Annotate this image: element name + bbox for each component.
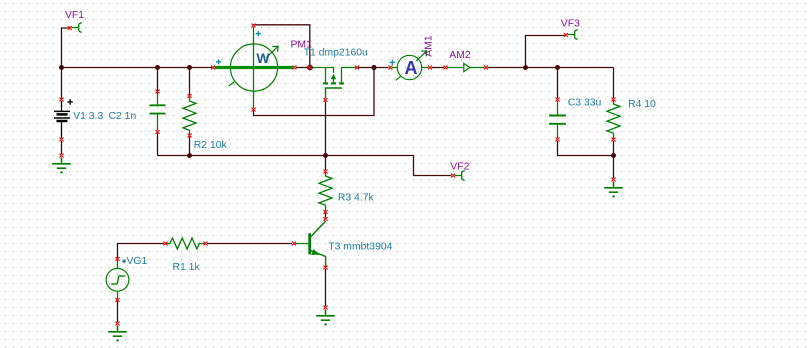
pin marks probe VF3 [564, 33, 567, 36]
wire top rail left [62, 67, 213, 69]
junction node: C3 top [555, 65, 560, 70]
resistor R3 [319, 172, 332, 212]
pin marks probe VF1 [68, 26, 71, 29]
label R2 10k [194, 140, 228, 151]
pin marks resistor R4 and its ground [612, 98, 615, 181]
label R1 1k [173, 262, 201, 273]
pin marks probe VF2 [452, 174, 455, 177]
power meter PM1 circle [230, 44, 277, 91]
wire VF1 branch [62, 28, 69, 68]
label AM2 [449, 50, 471, 61]
junction node: C2 top [155, 65, 160, 70]
power meter PM1 arrow [266, 46, 278, 58]
svg-text:C2 1n: C2 1n [109, 111, 137, 122]
label T3 mmbt3904 [328, 241, 392, 252]
wire R3 bottom to T3 collector [325, 213, 327, 218]
label VF2 [450, 161, 469, 172]
label C2 1n [109, 111, 137, 122]
capacitor C3 [549, 101, 566, 138]
transistor T1 pmos [311, 68, 357, 99]
probe VF3 [568, 30, 578, 40]
svg-text:AM2: AM2 [449, 50, 471, 61]
battery V1 [54, 99, 73, 138]
wire T1 gate down [325, 102, 327, 156]
ground below R4 [604, 182, 623, 197]
svg-text:AM1: AM1 [423, 35, 434, 57]
power meter PM1 plus marks [216, 31, 261, 64]
label VF1 [65, 10, 84, 21]
pin marks capacitor C3 [556, 98, 559, 141]
wire R3 top [325, 156, 327, 171]
junction node: VF3 branch [523, 65, 528, 70]
source VG1 [106, 259, 129, 299]
svg-text:T3 mmbt3904: T3 mmbt3904 [328, 241, 392, 252]
wire PM1 right pin to node A [296, 67, 310, 69]
ammeter AM1 circle [397, 55, 421, 79]
wire R2 bottom [189, 137, 191, 156]
wire PM1 top loop [254, 25, 310, 67]
ammeter AM1 A letter [405, 58, 418, 78]
ground below VG1 [108, 326, 127, 341]
probe VF1 [72, 23, 82, 33]
power meter PM1 vertical line [253, 27, 255, 108]
junction node: T1 source / PM1 loop [307, 65, 313, 71]
wire R4 bottom to ground [613, 141, 615, 178]
pin marks resistor R3 [324, 170, 327, 214]
svg-text:C3 33u: C3 33u [568, 98, 602, 109]
ammeter AM1 plus mark [390, 60, 395, 65]
svg-text:R3 4.7k: R3 4.7k [338, 192, 375, 203]
power meter PM1 W letter [256, 50, 270, 66]
resistor R2 [183, 97, 196, 136]
label T1 dmp2160u [304, 47, 368, 58]
svg-text:W: W [256, 50, 270, 66]
ground below V1 [52, 158, 71, 173]
label PM1 [291, 39, 313, 50]
wire C2 top [157, 68, 159, 91]
junction node: C3/R4 bottom [611, 153, 616, 158]
svg-text:V1 3.3: V1 3.3 [73, 111, 103, 122]
ammeter AM1 needle tail [396, 76, 401, 80]
wire T1 drain to AM1 [358, 67, 389, 69]
label R4 10 [628, 99, 656, 110]
wire mid rail to VF2 [158, 156, 452, 176]
pin marks ammeter AM1 [389, 66, 432, 69]
svg-text:VF3: VF3 [561, 18, 580, 29]
label VF3 [561, 18, 580, 29]
label VG1 [127, 256, 148, 267]
junction node: R2 bottom on mid rail [187, 153, 192, 158]
pin marks resistor R1 [164, 242, 207, 245]
probe VF2 [455, 171, 465, 181]
ground below T3 [316, 310, 335, 325]
wire PM1 bottom to drain node [254, 69, 375, 116]
wire AM1 to AM2 [432, 67, 445, 69]
pin marks arrow AM2 [444, 66, 488, 69]
pin marks capacitor C2 [156, 90, 159, 134]
pin marks resistor R2 [188, 94, 191, 137]
svg-text:VF2: VF2 [450, 161, 469, 172]
resistor R4 [607, 100, 620, 140]
pin marks battery V1 [60, 98, 63, 157]
wire VF3 branch [526, 36, 565, 68]
svg-text:VG1: VG1 [127, 256, 148, 267]
svg-text:R1 1k: R1 1k [173, 262, 201, 273]
svg-text:VF1: VF1 [65, 10, 84, 21]
wire VG1 top to R1 [118, 244, 165, 259]
pin marks power meter PM1 [211, 24, 296, 111]
power meter PM1 needle tail [229, 82, 235, 86]
transistor T3 npn [295, 221, 326, 267]
junction node: V1/VF1 top-left [59, 65, 64, 70]
pin marks transistor T3 and its ground [292, 217, 327, 309]
pin marks transistor T1 [308, 66, 358, 102]
junction node: R2 top [187, 65, 192, 70]
ammeter AM1 stubs [392, 67, 429, 69]
ammeter AM1 arrow [416, 51, 426, 61]
wire C2 bottom [157, 133, 159, 156]
power meter PM1 thick bar [215, 66, 294, 69]
label V1 3.3 [73, 111, 103, 122]
wire V1 top lead [61, 68, 63, 99]
wire V1 bottom to ground [61, 141, 63, 154]
wire R2 top [189, 68, 191, 96]
label R3 4.7k [338, 192, 375, 203]
svg-text:T1 dmp2160u: T1 dmp2160u [304, 47, 368, 58]
wire R1 to T3 base [207, 243, 292, 245]
junction node: T1 drain / PM1 bottom [371, 65, 376, 70]
wire C3 bottom [558, 141, 614, 156]
svg-text:A: A [405, 58, 418, 78]
wire AM2 to output node [488, 68, 614, 99]
svg-text:R4 10: R4 10 [628, 99, 656, 110]
label AM1 rotated [423, 35, 434, 57]
wire T3 emitter to ground [325, 269, 327, 306]
resistor R1 [166, 238, 206, 249]
wire VG1 bottom to ground [117, 301, 119, 322]
junction node: R3 top / gate on mid rail [323, 153, 328, 158]
svg-text:R2 10k: R2 10k [194, 140, 228, 151]
pin marks source VG1 and its ground [116, 257, 119, 325]
capacitor C2 [150, 92, 166, 131]
wire C3 top [557, 68, 559, 99]
ammeter AM2 wire and arrow [447, 63, 485, 71]
label C3 33u [568, 98, 602, 109]
